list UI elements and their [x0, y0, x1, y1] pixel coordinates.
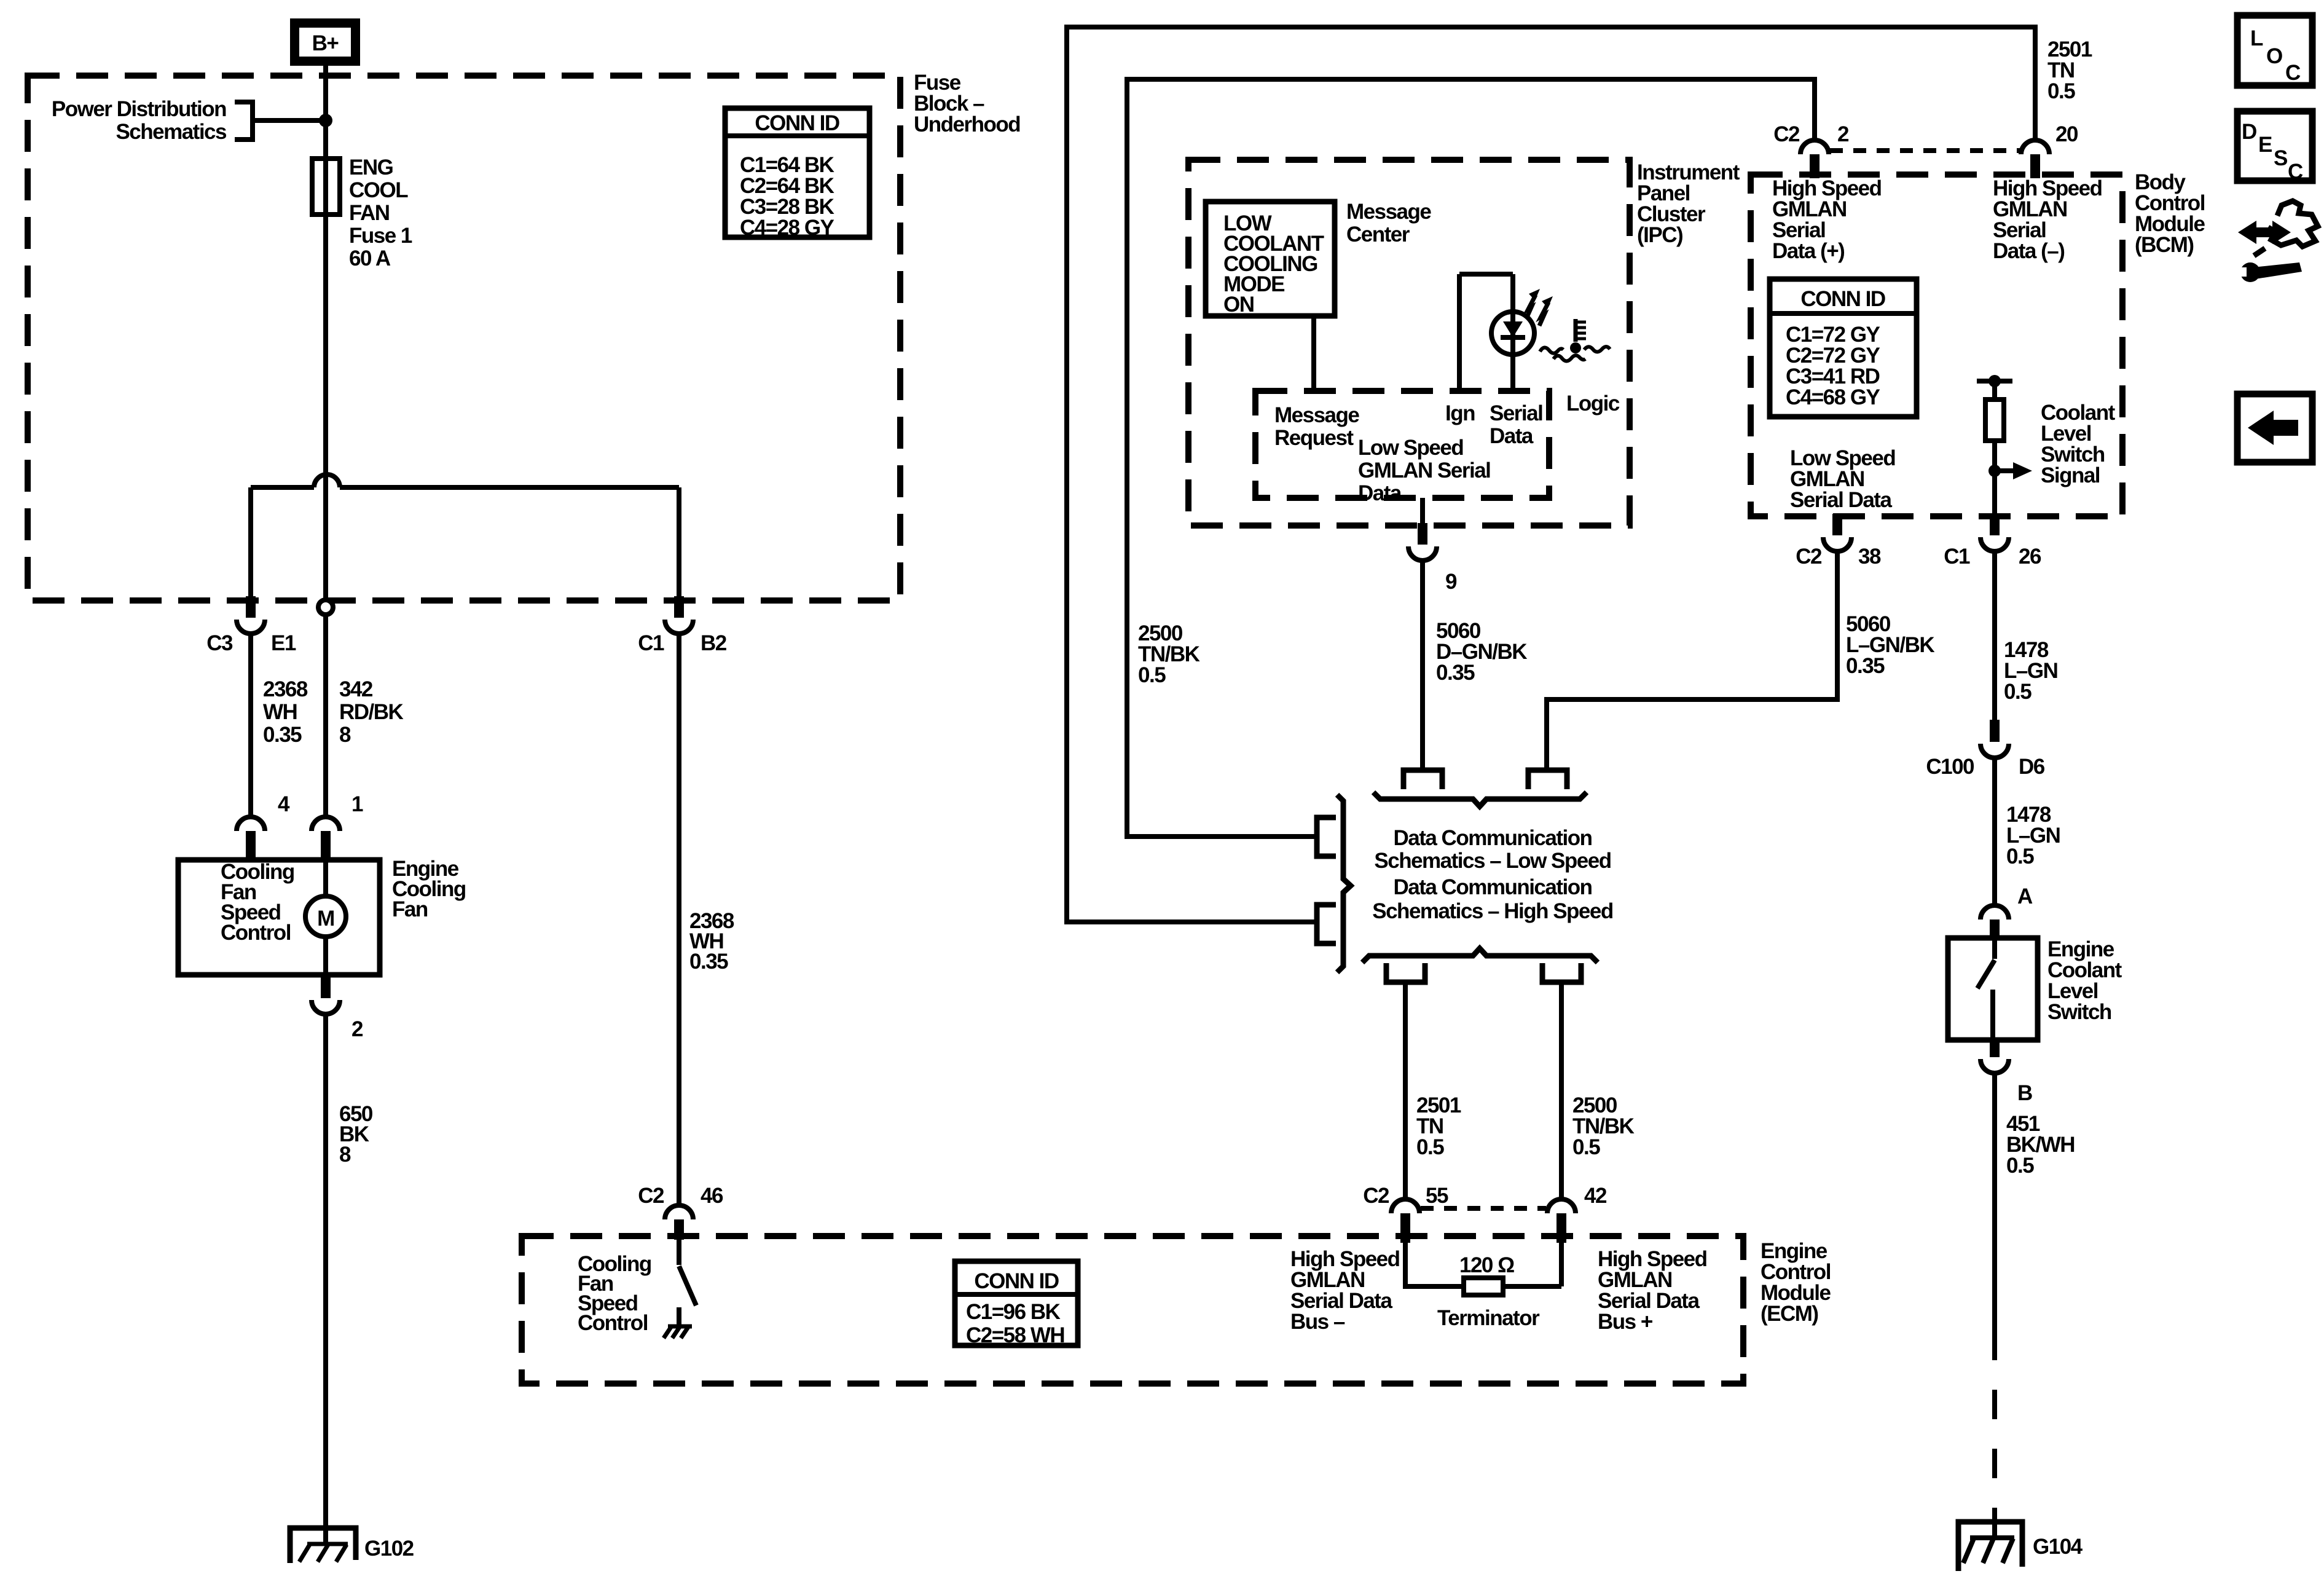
svg-text:C4=68 GY: C4=68 GY	[1786, 385, 1880, 409]
svg-text:Logic: Logic	[1566, 392, 1620, 415]
svg-text:Center: Center	[1346, 222, 1410, 246]
svg-text:M: M	[317, 907, 334, 931]
svg-text:G102: G102	[364, 1537, 414, 1561]
svg-text:L: L	[2250, 26, 2263, 50]
svg-text:Serial Data: Serial Data	[1790, 488, 1892, 512]
svg-text:Data Communication: Data Communication	[1393, 875, 1592, 899]
svg-text:CONN ID: CONN ID	[755, 111, 839, 135]
svg-text:(ECM): (ECM)	[1761, 1302, 1818, 1326]
svg-text:CONN ID: CONN ID	[1800, 287, 1885, 311]
svg-text:C1: C1	[1944, 545, 1970, 569]
svg-text:Low Speed: Low Speed	[1358, 436, 1463, 460]
svg-text:Data (–): Data (–)	[1993, 239, 2064, 263]
svg-text:C2: C2	[1796, 545, 1822, 569]
svg-text:C2: C2	[1363, 1184, 1389, 1208]
svg-text:C: C	[2285, 61, 2301, 85]
svg-text:B: B	[2017, 1081, 2032, 1105]
svg-text:120 Ω: 120 Ω	[1459, 1253, 1514, 1277]
svg-text:2368: 2368	[263, 677, 308, 701]
svg-text:0.5: 0.5	[2006, 1154, 2034, 1178]
svg-text:Signal: Signal	[2041, 463, 2100, 487]
svg-text:B2: B2	[701, 631, 727, 655]
svg-text:20: 20	[2055, 122, 2078, 146]
svg-text:Schematics: Schematics	[116, 120, 227, 144]
svg-text:8: 8	[339, 723, 351, 747]
svg-text:Power Distribution: Power Distribution	[52, 97, 226, 121]
svg-text:CONN ID: CONN ID	[974, 1269, 1059, 1293]
svg-text:E1: E1	[271, 631, 296, 655]
svg-text:ON: ON	[1223, 293, 1254, 317]
svg-text:Message: Message	[1346, 200, 1431, 224]
svg-text:Control: Control	[578, 1311, 648, 1335]
svg-text:B+: B+	[312, 31, 339, 55]
svg-text:0.35: 0.35	[1846, 654, 1885, 678]
svg-text:0.35: 0.35	[689, 950, 728, 974]
svg-text:G104: G104	[2033, 1535, 2083, 1559]
svg-text:Fan: Fan	[392, 897, 428, 921]
svg-text:C2: C2	[1773, 122, 1800, 146]
svg-text:342: 342	[339, 677, 373, 701]
svg-text:C4=28 GY: C4=28 GY	[740, 216, 834, 240]
svg-text:0.5: 0.5	[1416, 1135, 1444, 1159]
svg-text:1: 1	[351, 792, 363, 816]
svg-text:8: 8	[339, 1143, 351, 1167]
svg-text:42: 42	[1584, 1184, 1607, 1208]
svg-text:0.35: 0.35	[263, 723, 302, 747]
svg-text:A: A	[2017, 884, 2033, 908]
svg-text:C100: C100	[1926, 755, 1974, 779]
svg-text:Serial: Serial	[1490, 401, 1542, 425]
svg-text:E: E	[2258, 133, 2272, 157]
svg-text:Request: Request	[1274, 426, 1354, 450]
svg-text:Data: Data	[1358, 481, 1402, 505]
svg-text:0.5: 0.5	[2004, 680, 2032, 704]
svg-text:2: 2	[1837, 122, 1849, 146]
svg-text:0.35: 0.35	[1436, 661, 1475, 685]
svg-text:Bus –: Bus –	[1290, 1310, 1345, 1334]
svg-text:26: 26	[2019, 545, 2041, 569]
svg-text:Message: Message	[1274, 403, 1359, 427]
svg-text:Bus +: Bus +	[1598, 1310, 1653, 1334]
svg-text:46: 46	[701, 1184, 723, 1208]
svg-text:WH: WH	[263, 700, 297, 724]
svg-text:Fuse 1: Fuse 1	[349, 224, 412, 248]
svg-text:Schematics – High Speed: Schematics – High Speed	[1372, 899, 1613, 923]
svg-text:GMLAN Serial: GMLAN Serial	[1358, 459, 1490, 482]
svg-text:C1: C1	[638, 631, 664, 655]
svg-text:FAN: FAN	[349, 201, 390, 225]
svg-text:Data (+): Data (+)	[1772, 239, 1844, 263]
svg-text:0.5: 0.5	[2047, 79, 2075, 103]
svg-text:Switch: Switch	[2047, 1000, 2111, 1024]
svg-text:Control: Control	[221, 921, 291, 945]
svg-text:38: 38	[1858, 545, 1881, 569]
svg-text:Schematics – Low Speed: Schematics – Low Speed	[1374, 849, 1611, 873]
svg-text:C2=58 WH: C2=58 WH	[966, 1323, 1064, 1347]
svg-text:COOL: COOL	[349, 178, 408, 202]
svg-text:D: D	[2242, 120, 2256, 144]
svg-text:(BCM): (BCM)	[2135, 233, 2194, 257]
svg-text:Ign: Ign	[1445, 401, 1475, 425]
svg-text:9: 9	[1445, 570, 1457, 594]
svg-text:4: 4	[278, 792, 290, 816]
svg-text:0.5: 0.5	[1138, 663, 1166, 687]
svg-text:O: O	[2266, 44, 2282, 68]
svg-text:C3: C3	[206, 631, 233, 655]
svg-text:C2: C2	[638, 1184, 664, 1208]
svg-text:Data: Data	[1490, 424, 1534, 448]
svg-text:55: 55	[1426, 1184, 1448, 1208]
svg-text:60 A: 60 A	[349, 246, 391, 270]
svg-text:RD/BK: RD/BK	[339, 700, 404, 724]
svg-text:Data Communication: Data Communication	[1393, 826, 1592, 850]
svg-text:C1=96 BK: C1=96 BK	[966, 1300, 1061, 1324]
svg-text:D6: D6	[2019, 755, 2045, 779]
svg-text:2: 2	[351, 1017, 363, 1041]
svg-text:0.5: 0.5	[1572, 1135, 1600, 1159]
svg-text:Underhood: Underhood	[914, 112, 1020, 136]
svg-text:(IPC): (IPC)	[1637, 223, 1682, 247]
svg-text:Terminator: Terminator	[1437, 1306, 1540, 1330]
svg-text:0.5: 0.5	[2006, 845, 2034, 868]
svg-text:S: S	[2274, 146, 2287, 170]
svg-text:ENG: ENG	[349, 156, 393, 179]
svg-text:C: C	[2288, 160, 2303, 184]
